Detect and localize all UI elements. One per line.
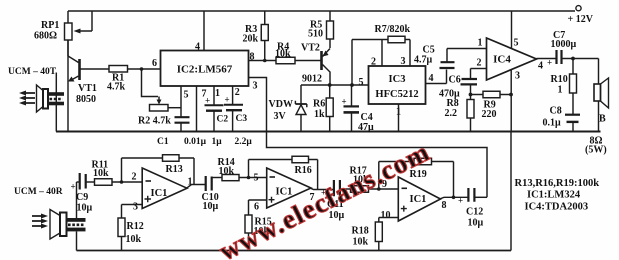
svg-text:IC1:LM324: IC1:LM324: [527, 190, 581, 201]
label speaker 8ohm 5W: [585, 136, 607, 156]
svg-text:10k: 10k: [219, 166, 235, 177]
svg-text:VT2: VT2: [301, 43, 320, 54]
zener diode VDW: [269, 85, 307, 132]
wire IC1a pin 3: [122, 204, 143, 206]
node +12V terminal: [568, 6, 594, 25]
svg-text:VT1: VT1: [78, 83, 97, 94]
svg-text:2: 2: [132, 172, 137, 183]
svg-text:4: 4: [429, 73, 434, 84]
wire IC1b output: [310, 188, 333, 190]
resistor R8: [445, 93, 475, 132]
svg-text:1μ: 1μ: [212, 137, 223, 147]
capacitor C3: [224, 86, 247, 132]
svg-text:1: 1: [558, 85, 563, 96]
svg-text:IC3: IC3: [389, 74, 406, 85]
label parts note: [515, 178, 600, 213]
svg-text:IC1: IC1: [276, 187, 293, 198]
svg-text:1000μ: 1000μ: [551, 39, 577, 50]
svg-text:680Ω: 680Ω: [34, 31, 57, 42]
capacitor C6: [439, 69, 487, 100]
svg-text:6: 6: [152, 58, 157, 69]
resistor R11: [92, 160, 143, 186]
wire receiver output to IC2 pin 3: [249, 78, 488, 198]
svg-text:C6: C6: [449, 75, 461, 86]
svg-text:5: 5: [359, 77, 364, 88]
svg-text:RP1: RP1: [41, 20, 59, 31]
resistor R19: [379, 158, 454, 197]
wire IC1a output: [187, 185, 206, 189]
svg-text:2.2: 2.2: [445, 108, 458, 119]
op-amp IC3 HFC5212: [359, 56, 434, 118]
resistor R15: [245, 200, 272, 251]
resistor R7: [352, 24, 411, 85]
svg-text:8: 8: [442, 200, 447, 211]
wire IC1b pin 6: [249, 199, 267, 201]
svg-text:C8: C8: [550, 106, 562, 117]
capacitor C10: [202, 176, 223, 212]
wire IC3 pin 4 output: [426, 83, 447, 85]
resistor R16: [249, 156, 318, 189]
wire IC2 pin 7 to ground: [196, 86, 198, 132]
resistor R9: [471, 91, 513, 120]
wire top +12V supply rail: [68, 10, 575, 12]
capacitor C1: [157, 117, 190, 147]
svg-text:3V: 3V: [274, 111, 287, 122]
resistor R12: [118, 205, 144, 251]
svg-text:4.7μ: 4.7μ: [414, 55, 433, 66]
op-amp IC1 third stage: [381, 177, 447, 221]
capacitor C8: [543, 106, 581, 132]
svg-text:UCM – 40R: UCM – 40R: [14, 187, 63, 197]
potentiometer R2: [138, 69, 181, 127]
svg-text:C2: C2: [217, 115, 229, 125]
wire IC2 pin 5 stub: [180, 86, 182, 117]
capacitor C5: [414, 45, 487, 84]
svg-text:+ 12V: + 12V: [568, 14, 594, 25]
svg-text:0.01μ: 0.01μ: [184, 137, 207, 147]
svg-text:9012: 9012: [302, 74, 322, 85]
transducer UCM-40T: [8, 67, 64, 132]
svg-text:R13: R13: [166, 164, 183, 175]
resistor R17: [350, 166, 399, 193]
svg-text:10k: 10k: [275, 49, 291, 60]
svg-text:+: +: [71, 182, 76, 192]
svg-text:UCM – 40T: UCM – 40T: [8, 67, 57, 77]
svg-text:C9: C9: [76, 192, 88, 203]
svg-text:4: 4: [538, 61, 543, 72]
svg-text:47μ: 47μ: [358, 122, 374, 133]
svg-text:C12: C12: [466, 207, 483, 218]
resistor R5: [308, 11, 334, 48]
svg-text:10k: 10k: [353, 237, 369, 248]
op-amp IC2 LM567: [152, 42, 258, 101]
op-amp IC1 first stage: [132, 168, 193, 213]
wire IC1c output: [440, 196, 469, 200]
svg-text:R16: R16: [295, 165, 312, 176]
label capacitor values C1 C2 C3: [184, 137, 252, 147]
capacitor C7: [547, 30, 599, 68]
resistor R10: [551, 57, 577, 114]
svg-text:IC1: IC1: [151, 188, 168, 199]
svg-text:8050: 8050: [76, 94, 96, 105]
svg-text:R7/820k: R7/820k: [375, 24, 411, 35]
svg-text:510: 510: [308, 29, 323, 40]
wire IC2 pin 4 to rail: [203, 11, 205, 51]
wire IC4 pin 3 to ground: [510, 70, 512, 132]
wire IC4 pin 5 to rail: [511, 11, 513, 49]
node junction R1/R2: [140, 67, 144, 71]
svg-text:R10: R10: [551, 74, 568, 85]
svg-text:R6: R6: [313, 99, 325, 110]
capacitor C12: [458, 188, 487, 229]
svg-text:1k: 1k: [314, 109, 325, 120]
svg-text:10μ: 10μ: [77, 203, 93, 214]
svg-text:3: 3: [133, 202, 138, 213]
potentiometer RP1: [34, 11, 92, 56]
svg-text:IC4: IC4: [493, 54, 511, 66]
svg-text:20k: 20k: [243, 34, 259, 45]
wire IC1c pin 10: [379, 217, 399, 219]
svg-text:+: +: [547, 58, 552, 68]
svg-text:IC2:LM567: IC2:LM567: [177, 64, 233, 76]
op-amp IC4 TDA2003: [477, 38, 544, 82]
resistor R13: [122, 155, 195, 185]
svg-text:3: 3: [515, 71, 520, 82]
capacitor C2: [205, 86, 229, 132]
resistor R6: [313, 85, 333, 132]
resistor R3: [243, 11, 269, 61]
svg-text:5: 5: [184, 90, 189, 101]
svg-text:+: +: [225, 95, 230, 105]
wire IC3 pin 1 to ground: [398, 104, 400, 132]
resistor R18: [352, 218, 383, 251]
svg-text:B: B: [599, 114, 606, 125]
svg-text:6: 6: [254, 202, 259, 213]
capacitor C11: [321, 180, 351, 221]
svg-text:3: 3: [253, 81, 258, 92]
svg-text:2.2μ: 2.2μ: [235, 137, 253, 147]
svg-text:C3: C3: [236, 114, 248, 124]
capacitor C9: [71, 173, 95, 214]
transducer UCM-40R: [14, 182, 86, 251]
transistor VT2: [301, 43, 330, 86]
svg-text:5: 5: [254, 173, 259, 184]
svg-text:R18: R18: [352, 226, 369, 237]
svg-text:1: 1: [478, 38, 483, 49]
svg-text:10μ: 10μ: [203, 201, 219, 212]
svg-text:R12: R12: [127, 221, 144, 232]
wire note-box right edge: [510, 132, 512, 251]
svg-text:4: 4: [195, 42, 200, 53]
op-amp IC1 second stage: [254, 168, 315, 213]
wire VT2 emitter to IC3 pin 5: [301, 83, 369, 87]
ground rail (top circuit): [56, 131, 601, 133]
svg-text:HFC5212: HFC5212: [375, 89, 418, 100]
svg-text:10k: 10k: [93, 168, 109, 179]
svg-text:IC4:TDA2003: IC4:TDA2003: [525, 202, 589, 213]
svg-text:C1: C1: [157, 137, 169, 147]
resistor R4: [275, 42, 321, 64]
svg-text:IC1: IC1: [410, 194, 427, 205]
speaker B: [594, 59, 609, 132]
svg-text:220: 220: [482, 109, 497, 120]
svg-text:4.7k: 4.7k: [107, 82, 126, 93]
transistor VT1: [68, 40, 97, 132]
wire IC4 output: [537, 58, 557, 60]
svg-text:VDW: VDW: [269, 99, 293, 110]
svg-text:5: 5: [514, 38, 519, 49]
resistor R1: [81, 66, 161, 93]
svg-text:(5W): (5W): [585, 145, 607, 156]
svg-text:3: 3: [401, 56, 406, 67]
svg-text:2: 2: [371, 57, 376, 68]
svg-text:1: 1: [215, 88, 220, 99]
svg-text:10μ: 10μ: [468, 218, 484, 229]
capacitor C4: [342, 85, 375, 133]
svg-text:10k: 10k: [126, 234, 142, 245]
svg-text:2: 2: [477, 58, 482, 69]
resistor R14: [218, 157, 267, 181]
svg-text:R2 4.7k: R2 4.7k: [138, 116, 171, 127]
svg-text:+: +: [205, 96, 210, 106]
svg-text:+: +: [342, 97, 347, 107]
wire IC2 pin 8: [249, 59, 277, 63]
svg-text:R13,R16,R19:100k: R13,R16,R19:100k: [515, 178, 600, 189]
svg-text:0.1μ: 0.1μ: [543, 118, 562, 129]
svg-text:10: 10: [381, 210, 391, 221]
svg-text:2: 2: [235, 87, 240, 98]
svg-text:+: +: [458, 196, 463, 206]
ground rail (receiver circuit): [77, 250, 512, 252]
